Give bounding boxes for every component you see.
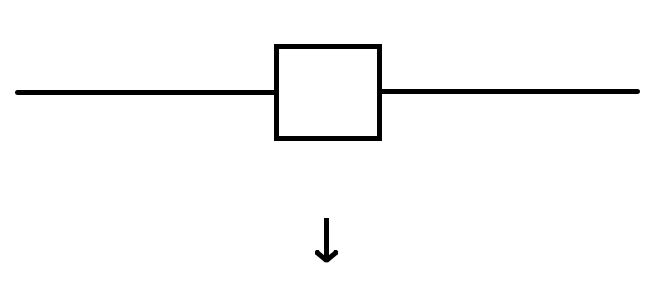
wire right lead — [380, 89, 638, 94]
resistor box (IEC rectangle body) — [277, 47, 380, 139]
arrow shaft (downward direction arrow) — [324, 218, 329, 259]
arrow head chevron — [317, 253, 336, 261]
arrow head right barb end cap — [334, 250, 338, 255]
wire left lead — [18, 90, 277, 95]
arrow head left barb end cap — [315, 250, 319, 255]
